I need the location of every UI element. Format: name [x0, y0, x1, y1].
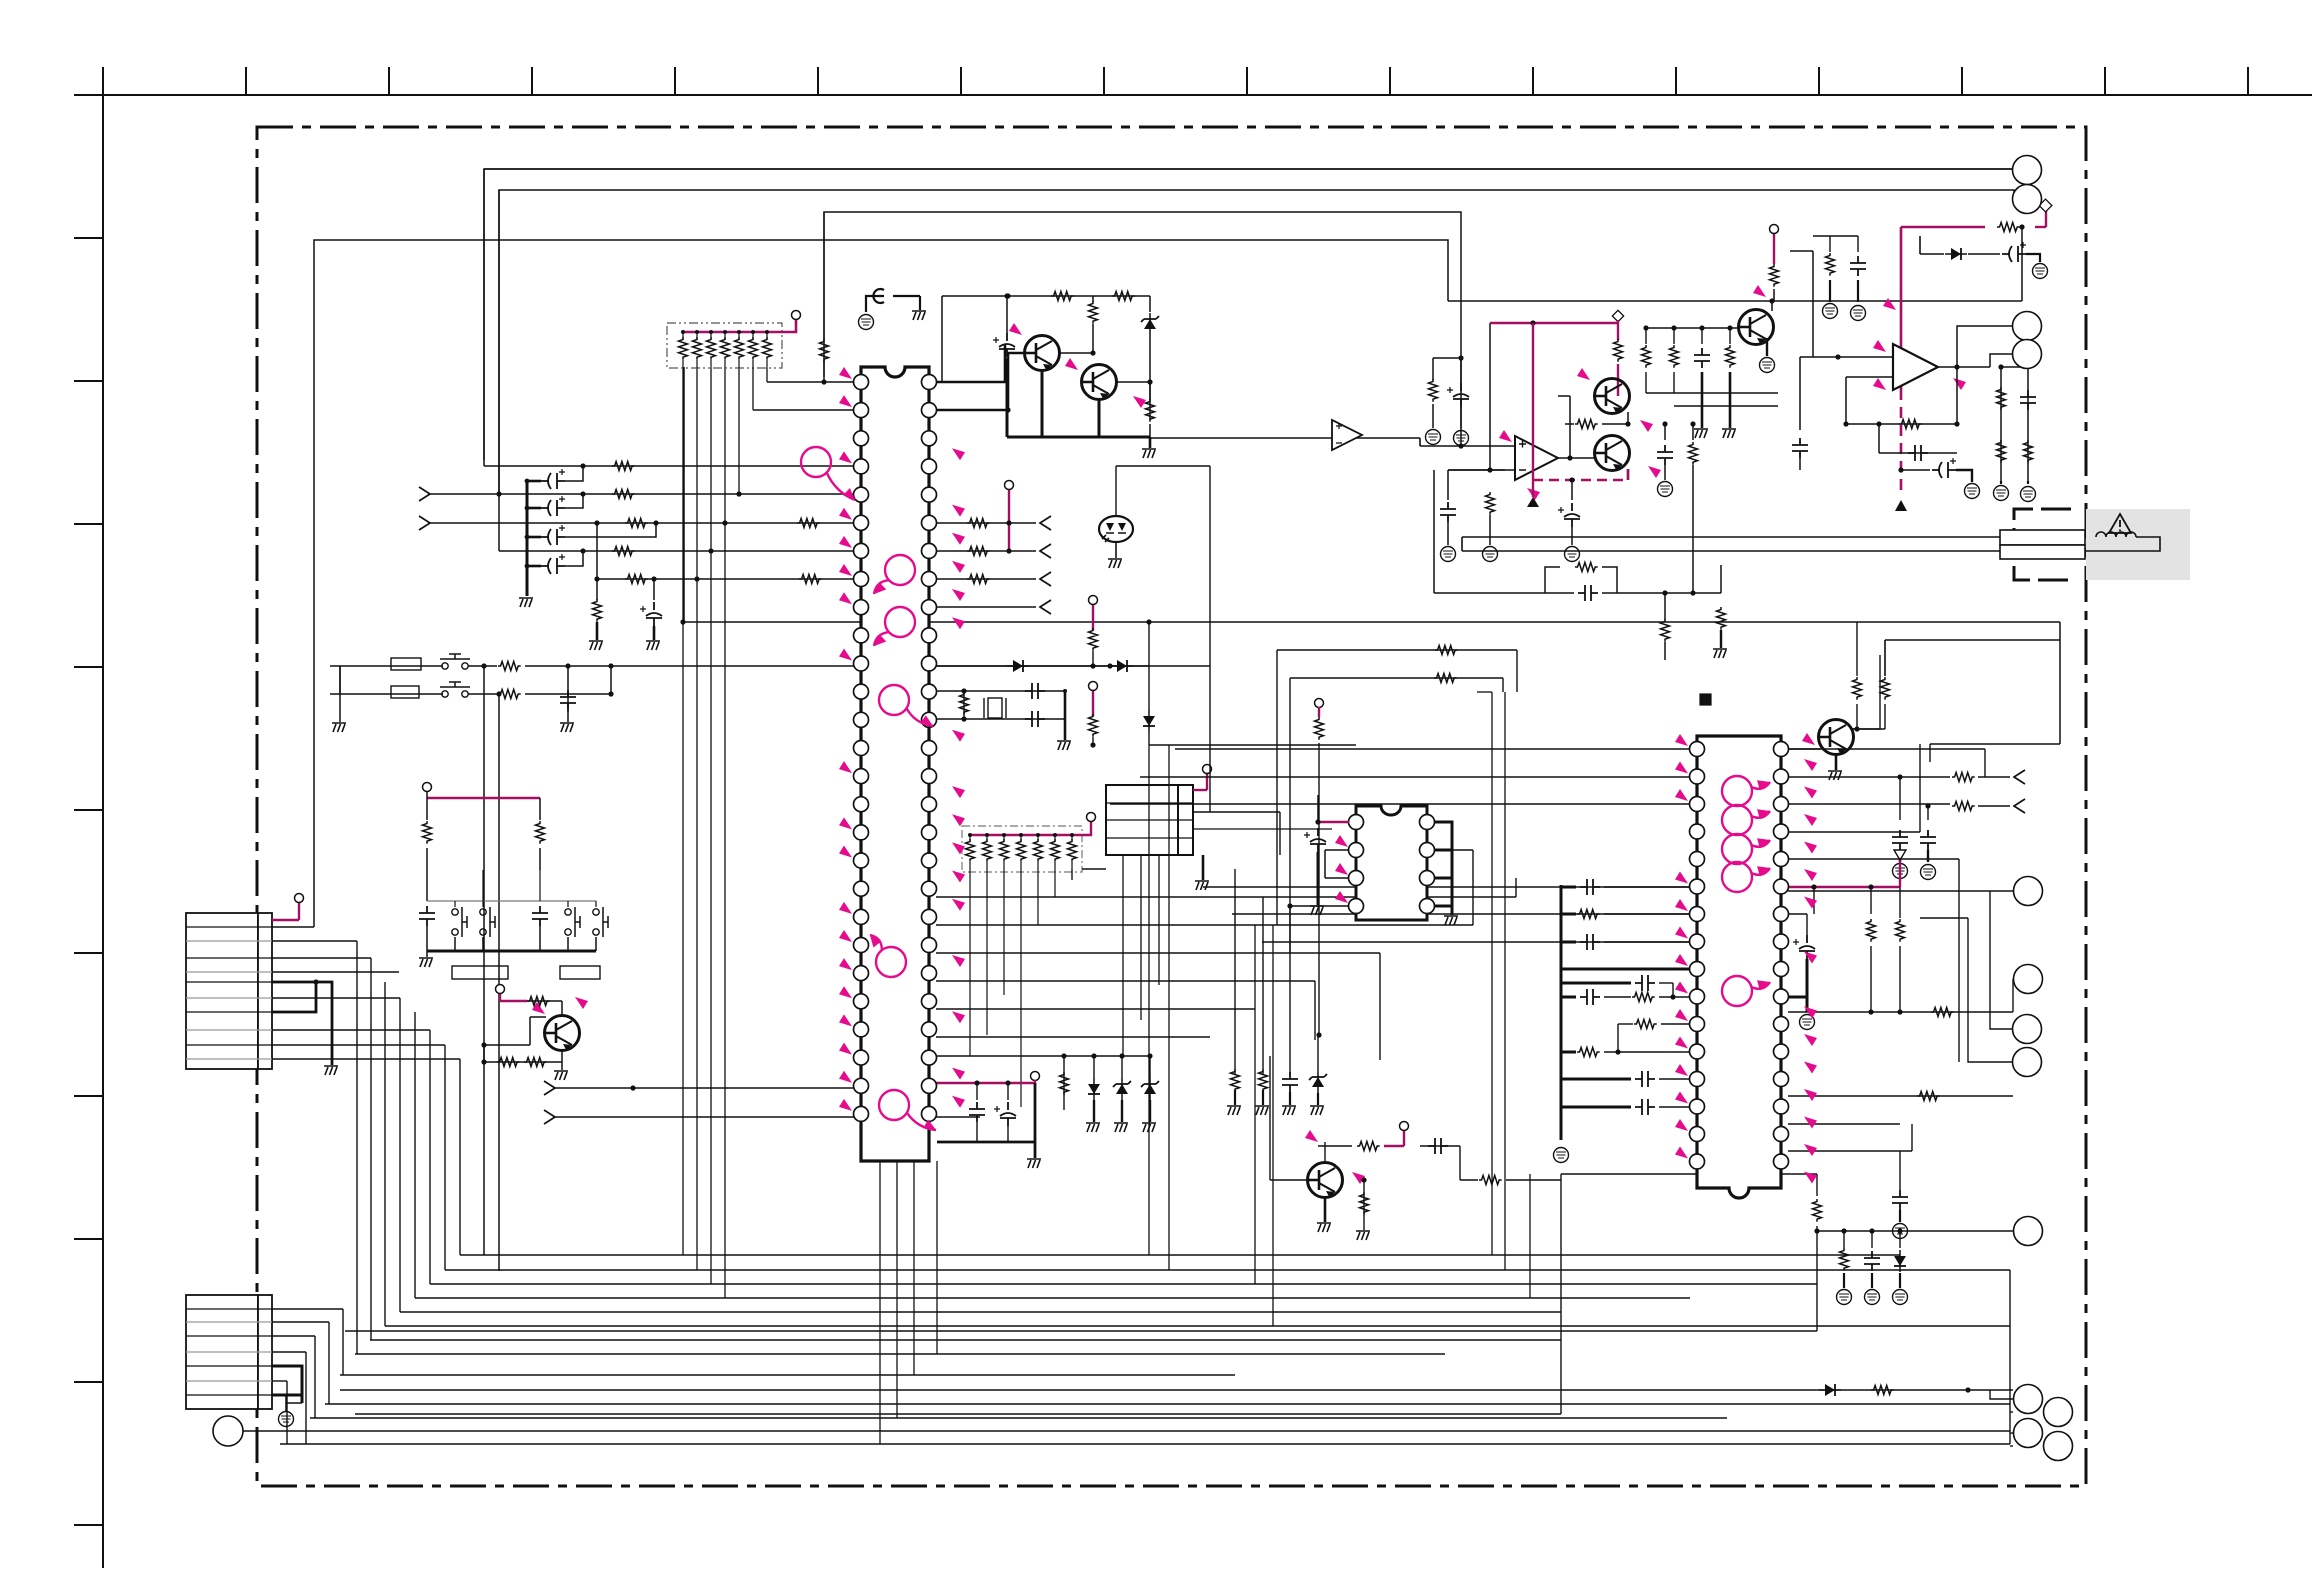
- IC pin: [1774, 742, 1789, 757]
- capacitor: [560, 690, 576, 710]
- wire: [310, 1417, 1727, 1419]
- service marker: [1675, 734, 1688, 746]
- wire: [565, 494, 583, 508]
- resistor: [1315, 717, 1324, 740]
- IC pin: [1690, 1072, 1705, 1087]
- IC servo/driver body: [1697, 736, 1781, 1198]
- wire: [1835, 753, 1838, 770]
- capacitor: [1908, 445, 1928, 461]
- junction: [1868, 1009, 1873, 1014]
- diode: [1894, 1250, 1906, 1272]
- service marker: [1675, 1009, 1688, 1021]
- resistor: [536, 821, 545, 844]
- push switch: [565, 907, 580, 937]
- ground: [1195, 881, 1209, 890]
- junction: [709, 330, 713, 334]
- wire: [1020, 880, 1022, 1107]
- wire: [74, 523, 103, 525]
- wire: [186, 1380, 272, 1382]
- junction: [580, 491, 585, 496]
- wire: [1856, 622, 1858, 676]
- wire: [1037, 835, 1039, 842]
- wire: [1092, 604, 1094, 630]
- junction: [765, 330, 769, 334]
- service marker: [839, 395, 852, 407]
- wire: [1115, 381, 1150, 383]
- wire: [1674, 405, 1778, 407]
- capacitor: [1920, 830, 1936, 850]
- wire: [1561, 1078, 1631, 1081]
- IC pin: [854, 741, 869, 756]
- dash-dot board boundary: [257, 127, 2086, 1486]
- junction: [1061, 1053, 1066, 1058]
- wire: [1269, 1056, 1271, 1180]
- IC pin: [922, 431, 937, 446]
- IC pin: [854, 1022, 869, 1037]
- IC pin: [1349, 843, 1364, 858]
- IC pin: [922, 1022, 937, 1037]
- wire: [986, 862, 988, 880]
- ground: [646, 641, 660, 650]
- connector CN1 body: [186, 913, 258, 1069]
- wire: [936, 353, 1026, 410]
- zener diode: [1113, 1078, 1131, 1100]
- wire: [1270, 1179, 1309, 1181]
- wire: [823, 360, 825, 382]
- wire: [1148, 732, 1150, 745]
- wire: [561, 1062, 563, 1070]
- wire: [1788, 1011, 2013, 1013]
- wire: [186, 981, 272, 983]
- IC pin: [922, 853, 937, 868]
- transistor: [1082, 365, 1117, 400]
- IC pin: [922, 938, 937, 953]
- wire: [1434, 822, 1452, 906]
- IC pin: [854, 572, 869, 587]
- wire: [1956, 470, 1972, 482]
- wire: [738, 360, 740, 368]
- wire: [683, 331, 790, 334]
- earth ground: [1893, 1224, 1908, 1239]
- resistor: [1479, 1176, 1502, 1185]
- wire: [1899, 860, 1901, 887]
- wire: [1788, 858, 1959, 860]
- IC pin: [922, 543, 937, 558]
- wire: [314, 240, 1448, 927]
- resistor: [498, 690, 521, 699]
- wire: [272, 1321, 329, 1323]
- wire: [1389, 67, 1391, 95]
- IC main system controller body: [861, 367, 929, 1161]
- resistor: [1068, 839, 1077, 862]
- test point terminal: [1087, 813, 1096, 822]
- service marker: [839, 508, 852, 520]
- wire: [1799, 458, 1801, 470]
- wire: [1034, 1083, 1037, 1142]
- junction: [1530, 320, 1535, 325]
- service marker: [1804, 1007, 1817, 1019]
- wire: [499, 550, 854, 552]
- wire: [1812, 251, 1814, 357]
- resistor: [820, 339, 829, 362]
- wire: [298, 903, 300, 920]
- junction: [1458, 443, 1463, 448]
- resistor: [1896, 919, 1905, 942]
- service marker: [1883, 298, 1896, 310]
- wire: [1701, 372, 1704, 428]
- service marker: [839, 451, 852, 463]
- wire: [1899, 1096, 1901, 1124]
- IC pin: [922, 825, 937, 840]
- service marker: [952, 1096, 965, 1108]
- earth ground: [1554, 1148, 1569, 1163]
- wire: [1604, 913, 1690, 915]
- service marker: [1953, 378, 1966, 390]
- wire: [272, 1029, 430, 1031]
- IC pin: [1774, 797, 1789, 812]
- capacitor: [1580, 879, 1600, 895]
- wire: [1627, 469, 1629, 480]
- ground: [1227, 1106, 1241, 1115]
- service marker: [839, 958, 852, 970]
- wire: [1324, 1196, 1327, 1222]
- service marker: [1499, 430, 1512, 442]
- wire: [567, 666, 569, 712]
- wire: [2035, 226, 2046, 228]
- wire: [936, 1082, 1035, 1084]
- wire: [2059, 622, 2061, 744]
- resistor: [1577, 910, 1600, 919]
- wire: [553, 1116, 980, 1118]
- service marker: [1675, 789, 1688, 801]
- service marker: [839, 1071, 852, 1083]
- wire: [1515, 878, 1517, 897]
- resistor: [799, 575, 822, 584]
- wire: [1462, 550, 2000, 552]
- wire: [1852, 655, 1880, 729]
- junction: [481, 1059, 486, 1064]
- wire: [1729, 328, 1731, 344]
- earth ground: [1483, 547, 1498, 562]
- IC pin: [1774, 1017, 1789, 1032]
- service marker: [839, 902, 852, 914]
- wire: [1532, 67, 1534, 95]
- IC pin: [1690, 962, 1705, 977]
- wire: [1121, 1056, 1123, 1078]
- wire: [186, 997, 272, 999]
- wire: [1929, 744, 1931, 762]
- wire: [1788, 776, 1950, 778]
- ground: [1317, 1223, 1331, 1232]
- wire: [1149, 424, 1151, 437]
- earth ground: [1426, 430, 1441, 445]
- ground: [1108, 559, 1122, 568]
- junction: [1876, 421, 1881, 426]
- wire: [1852, 728, 1885, 730]
- service marker: [839, 367, 852, 379]
- wire: [1659, 1106, 1690, 1108]
- wire: [1246, 67, 1248, 95]
- wire: [1788, 748, 1820, 750]
- junction: [974, 1080, 979, 1085]
- IC pin: [1349, 899, 1364, 914]
- wire: [1812, 236, 1814, 251]
- wire: [74, 94, 2312, 96]
- service marker: [952, 899, 965, 911]
- resistor: [593, 599, 602, 622]
- service marker: [1804, 787, 1817, 799]
- wire: [484, 1061, 562, 1063]
- wire: [1664, 642, 1666, 660]
- wire: [753, 409, 854, 411]
- wire: [1234, 1090, 1236, 1105]
- resistor: [735, 337, 744, 360]
- IC pin: [854, 966, 869, 981]
- service marker: [952, 814, 965, 826]
- resistor: [1826, 253, 1835, 276]
- wire: [893, 295, 920, 297]
- wire: [1899, 1210, 1901, 1222]
- IC pin: [922, 459, 937, 474]
- wire: [414, 1012, 416, 1298]
- capacitor: [1892, 830, 1908, 850]
- wire: [1846, 376, 1893, 378]
- zener diode: [1141, 1078, 1159, 1100]
- wire: [1673, 328, 1675, 344]
- wire: [2010, 1445, 2013, 1447]
- ground: [1086, 1123, 1100, 1132]
- wire: [766, 360, 768, 368]
- resistor: [612, 490, 635, 499]
- service marker: [1675, 927, 1688, 939]
- test point terminal: [792, 311, 801, 320]
- wire: [682, 368, 684, 1255]
- resistor: [763, 337, 772, 360]
- resistor: [1146, 399, 1155, 422]
- wire: [186, 1058, 272, 1060]
- junction: [1897, 1009, 1902, 1014]
- wire: [384, 982, 386, 1326]
- junction: [1843, 421, 1848, 426]
- wire: [1900, 227, 1903, 389]
- wire: [986, 835, 988, 842]
- wire: [1006, 296, 1008, 333]
- wire: [285, 1395, 287, 1412]
- test point terminal: [1203, 765, 1212, 774]
- wire: [1701, 328, 1703, 344]
- IC pin: [922, 628, 937, 643]
- wire: [427, 797, 540, 799]
- wire: [1041, 369, 1044, 437]
- wire: [1003, 880, 1005, 995]
- wire: [596, 523, 598, 579]
- wire: [1420, 445, 1515, 447]
- resistor: [625, 519, 648, 528]
- IC pin: [922, 1106, 937, 1121]
- junction: [481, 1042, 486, 1047]
- wire: [1020, 862, 1022, 880]
- wire: [530, 1016, 546, 1018]
- wire: [1034, 1142, 1037, 1158]
- wire: [1968, 918, 2013, 1062]
- service marker: [952, 505, 965, 517]
- ground: [519, 598, 533, 607]
- junction: [708, 548, 713, 553]
- wire: [1675, 67, 1677, 95]
- junction: [481, 663, 486, 668]
- wire: [1602, 423, 1628, 425]
- wire: [1870, 946, 1872, 1012]
- wire: [1645, 372, 1647, 393]
- wire: [963, 691, 965, 719]
- service marker: [1675, 872, 1688, 884]
- service marker: [1804, 1062, 1817, 1074]
- wire: [983, 698, 985, 718]
- push switch: [480, 907, 495, 937]
- capacitor: [1580, 934, 1600, 950]
- wire: [653, 579, 655, 600]
- service marker: [1804, 1089, 1817, 1101]
- wire: [1846, 423, 1957, 425]
- wire: [1272, 925, 1274, 1326]
- resistor: [612, 462, 635, 471]
- IC pin: [854, 825, 869, 840]
- diode: [1143, 710, 1155, 732]
- resistor: [1770, 264, 1779, 287]
- wire: [1664, 465, 1666, 480]
- electrolytic capacitor: [541, 525, 565, 545]
- wire: [738, 332, 740, 340]
- wire: [1806, 914, 1808, 935]
- wire: [936, 952, 1380, 954]
- wire: [1602, 567, 1617, 593]
- wire: [969, 862, 971, 880]
- junction: [608, 691, 613, 696]
- junction: [1004, 293, 1009, 298]
- wire: [1149, 335, 1151, 420]
- input arrow: [419, 516, 430, 530]
- wire: [342, 1309, 344, 1375]
- wire: [1054, 862, 1056, 880]
- wire: [567, 710, 569, 722]
- junction: [694, 576, 699, 581]
- wire: [539, 798, 541, 820]
- service marker: [839, 649, 852, 661]
- wire: [427, 900, 596, 902]
- service marker: [839, 761, 852, 773]
- wire: [1978, 776, 2010, 778]
- wire: [596, 579, 598, 600]
- wire: [1561, 982, 1631, 985]
- resistor: [1853, 677, 1862, 700]
- wire: [1115, 466, 1117, 516]
- wire: [286, 1381, 288, 1444]
- wire: [1602, 592, 1721, 594]
- wire: [2000, 367, 2002, 481]
- wire: [355, 1353, 1445, 1355]
- wire: [1490, 322, 1618, 324]
- service marker: [1804, 1034, 1817, 1046]
- resistor: [1931, 1008, 1954, 1017]
- wire: [1529, 1174, 1531, 1298]
- wire: [919, 296, 921, 310]
- resistor: [1231, 1069, 1240, 1092]
- wire: [1857, 236, 1859, 252]
- service marker: [1804, 952, 1817, 964]
- service marker: [839, 536, 852, 548]
- wire: [1093, 1056, 1095, 1078]
- wire: [565, 523, 656, 537]
- IC pin: [1774, 907, 1789, 922]
- junction: [695, 330, 699, 334]
- wire: [1857, 280, 1859, 302]
- resistor: [1717, 607, 1726, 630]
- resistor: [983, 839, 992, 862]
- resistor: [1051, 839, 1060, 862]
- wire: [1054, 835, 1056, 842]
- wire: [1558, 395, 1570, 397]
- IC pin: [854, 684, 869, 699]
- test point terminal: [1089, 596, 1098, 605]
- wire: [340, 693, 443, 695]
- wire: [1451, 906, 1454, 915]
- wire: [527, 565, 541, 568]
- test point terminal: [1005, 481, 1014, 490]
- resistor: [1259, 1069, 1268, 1092]
- ground: [554, 1071, 568, 1080]
- wire: [272, 982, 316, 1012]
- resistor: [1060, 1072, 1069, 1095]
- wire: [561, 1049, 563, 1062]
- wire: [970, 834, 1082, 836]
- resistor: [1034, 839, 1043, 862]
- wire: [1561, 996, 1576, 999]
- IC pin: [854, 459, 869, 474]
- service marker: [1675, 899, 1688, 911]
- wire: [484, 465, 854, 467]
- orientation mark: [1700, 694, 1711, 705]
- junction: [1615, 1049, 1620, 1054]
- wire: [1318, 821, 1349, 823]
- wire: [1472, 850, 1474, 925]
- capacitor: [1792, 438, 1808, 458]
- wire: [1447, 470, 1449, 500]
- capacitor: [1694, 348, 1710, 368]
- resistor: [1867, 919, 1876, 942]
- IC pin: [854, 628, 869, 643]
- wire: [1561, 1106, 1631, 1109]
- wire: [370, 1339, 1561, 1341]
- wire: [459, 1059, 461, 1255]
- wire: [1560, 885, 1563, 1140]
- wire: [1140, 776, 1690, 778]
- wire: [1646, 327, 1740, 329]
- resistor: [1670, 345, 1679, 368]
- ground: [1356, 1231, 1370, 1240]
- resistor: [1726, 345, 1735, 368]
- ground: [324, 1066, 338, 1075]
- wire: [1871, 1231, 1873, 1248]
- wire: [1901, 226, 1985, 228]
- wire: [1618, 1023, 1633, 1025]
- IC pin: [1420, 843, 1435, 858]
- junction: [1146, 619, 1151, 624]
- wire: [1816, 1226, 1818, 1331]
- IC pin: [854, 938, 869, 953]
- phono jack circles: [2013, 156, 2042, 185]
- wire: [937, 1141, 1035, 1144]
- electrolytic capacitor: [1304, 828, 1326, 852]
